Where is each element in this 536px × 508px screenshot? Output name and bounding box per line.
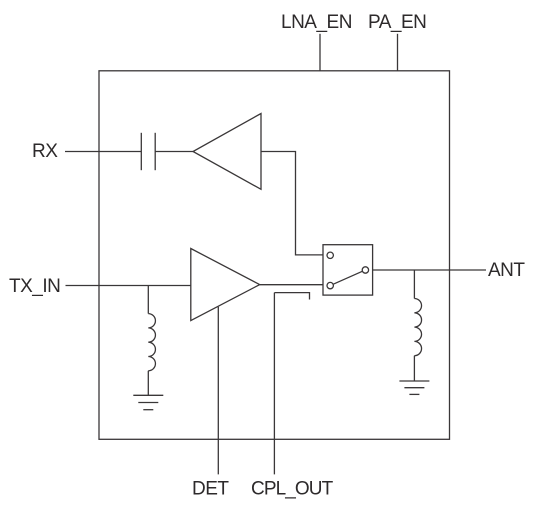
svg-text:RX: RX xyxy=(32,141,58,162)
pin label CPL_OUT xyxy=(251,479,334,500)
ground (left) xyxy=(133,395,163,409)
wire switch to ANT xyxy=(373,269,486,271)
pin label DET xyxy=(192,479,229,500)
switch contact pin 1 (RX throw) xyxy=(327,252,333,258)
ground (right) xyxy=(399,381,429,394)
svg-text:DET: DET xyxy=(192,479,229,500)
inductor L1 xyxy=(148,286,155,396)
inductor L2 xyxy=(414,270,421,381)
wire capacitor to LNA xyxy=(155,151,193,153)
wire PA_EN pin xyxy=(397,34,399,71)
wire CPL_OUT (coupler to bottom pin) xyxy=(273,293,275,475)
wire PA output to switch xyxy=(260,284,323,286)
svg-text:CPL_OUT: CPL_OUT xyxy=(251,479,334,500)
svg-text:ANT: ANT xyxy=(488,260,525,281)
directional coupler xyxy=(274,293,309,300)
pin label ANT xyxy=(488,260,525,281)
switch SW1 (SPDT) box xyxy=(323,245,373,295)
pin label PA_EN xyxy=(368,12,426,33)
pin label LNA_EN xyxy=(281,12,352,33)
wire TX_IN input xyxy=(66,285,191,287)
pin label RX xyxy=(32,141,58,162)
wire RX input xyxy=(65,151,141,153)
wire LNA_EN pin xyxy=(319,34,321,71)
svg-text:PA_EN: PA_EN xyxy=(368,12,426,33)
switch contact pin 2 (TX throw) xyxy=(327,282,333,288)
amplifier LNA xyxy=(193,114,261,190)
switch arm xyxy=(333,271,362,284)
svg-text:LNA_EN: LNA_EN xyxy=(281,12,352,33)
pin label TX_IN xyxy=(9,276,60,297)
switch contact common (ANT pole) xyxy=(362,267,368,273)
capacitor C1 xyxy=(141,133,155,170)
svg-text:TX_IN: TX_IN xyxy=(9,276,60,297)
wire DET (from PA to bottom pin) xyxy=(217,307,219,475)
module outline box xyxy=(99,71,450,440)
amplifier PA xyxy=(191,249,260,321)
wire LNA output to switch xyxy=(261,152,323,255)
